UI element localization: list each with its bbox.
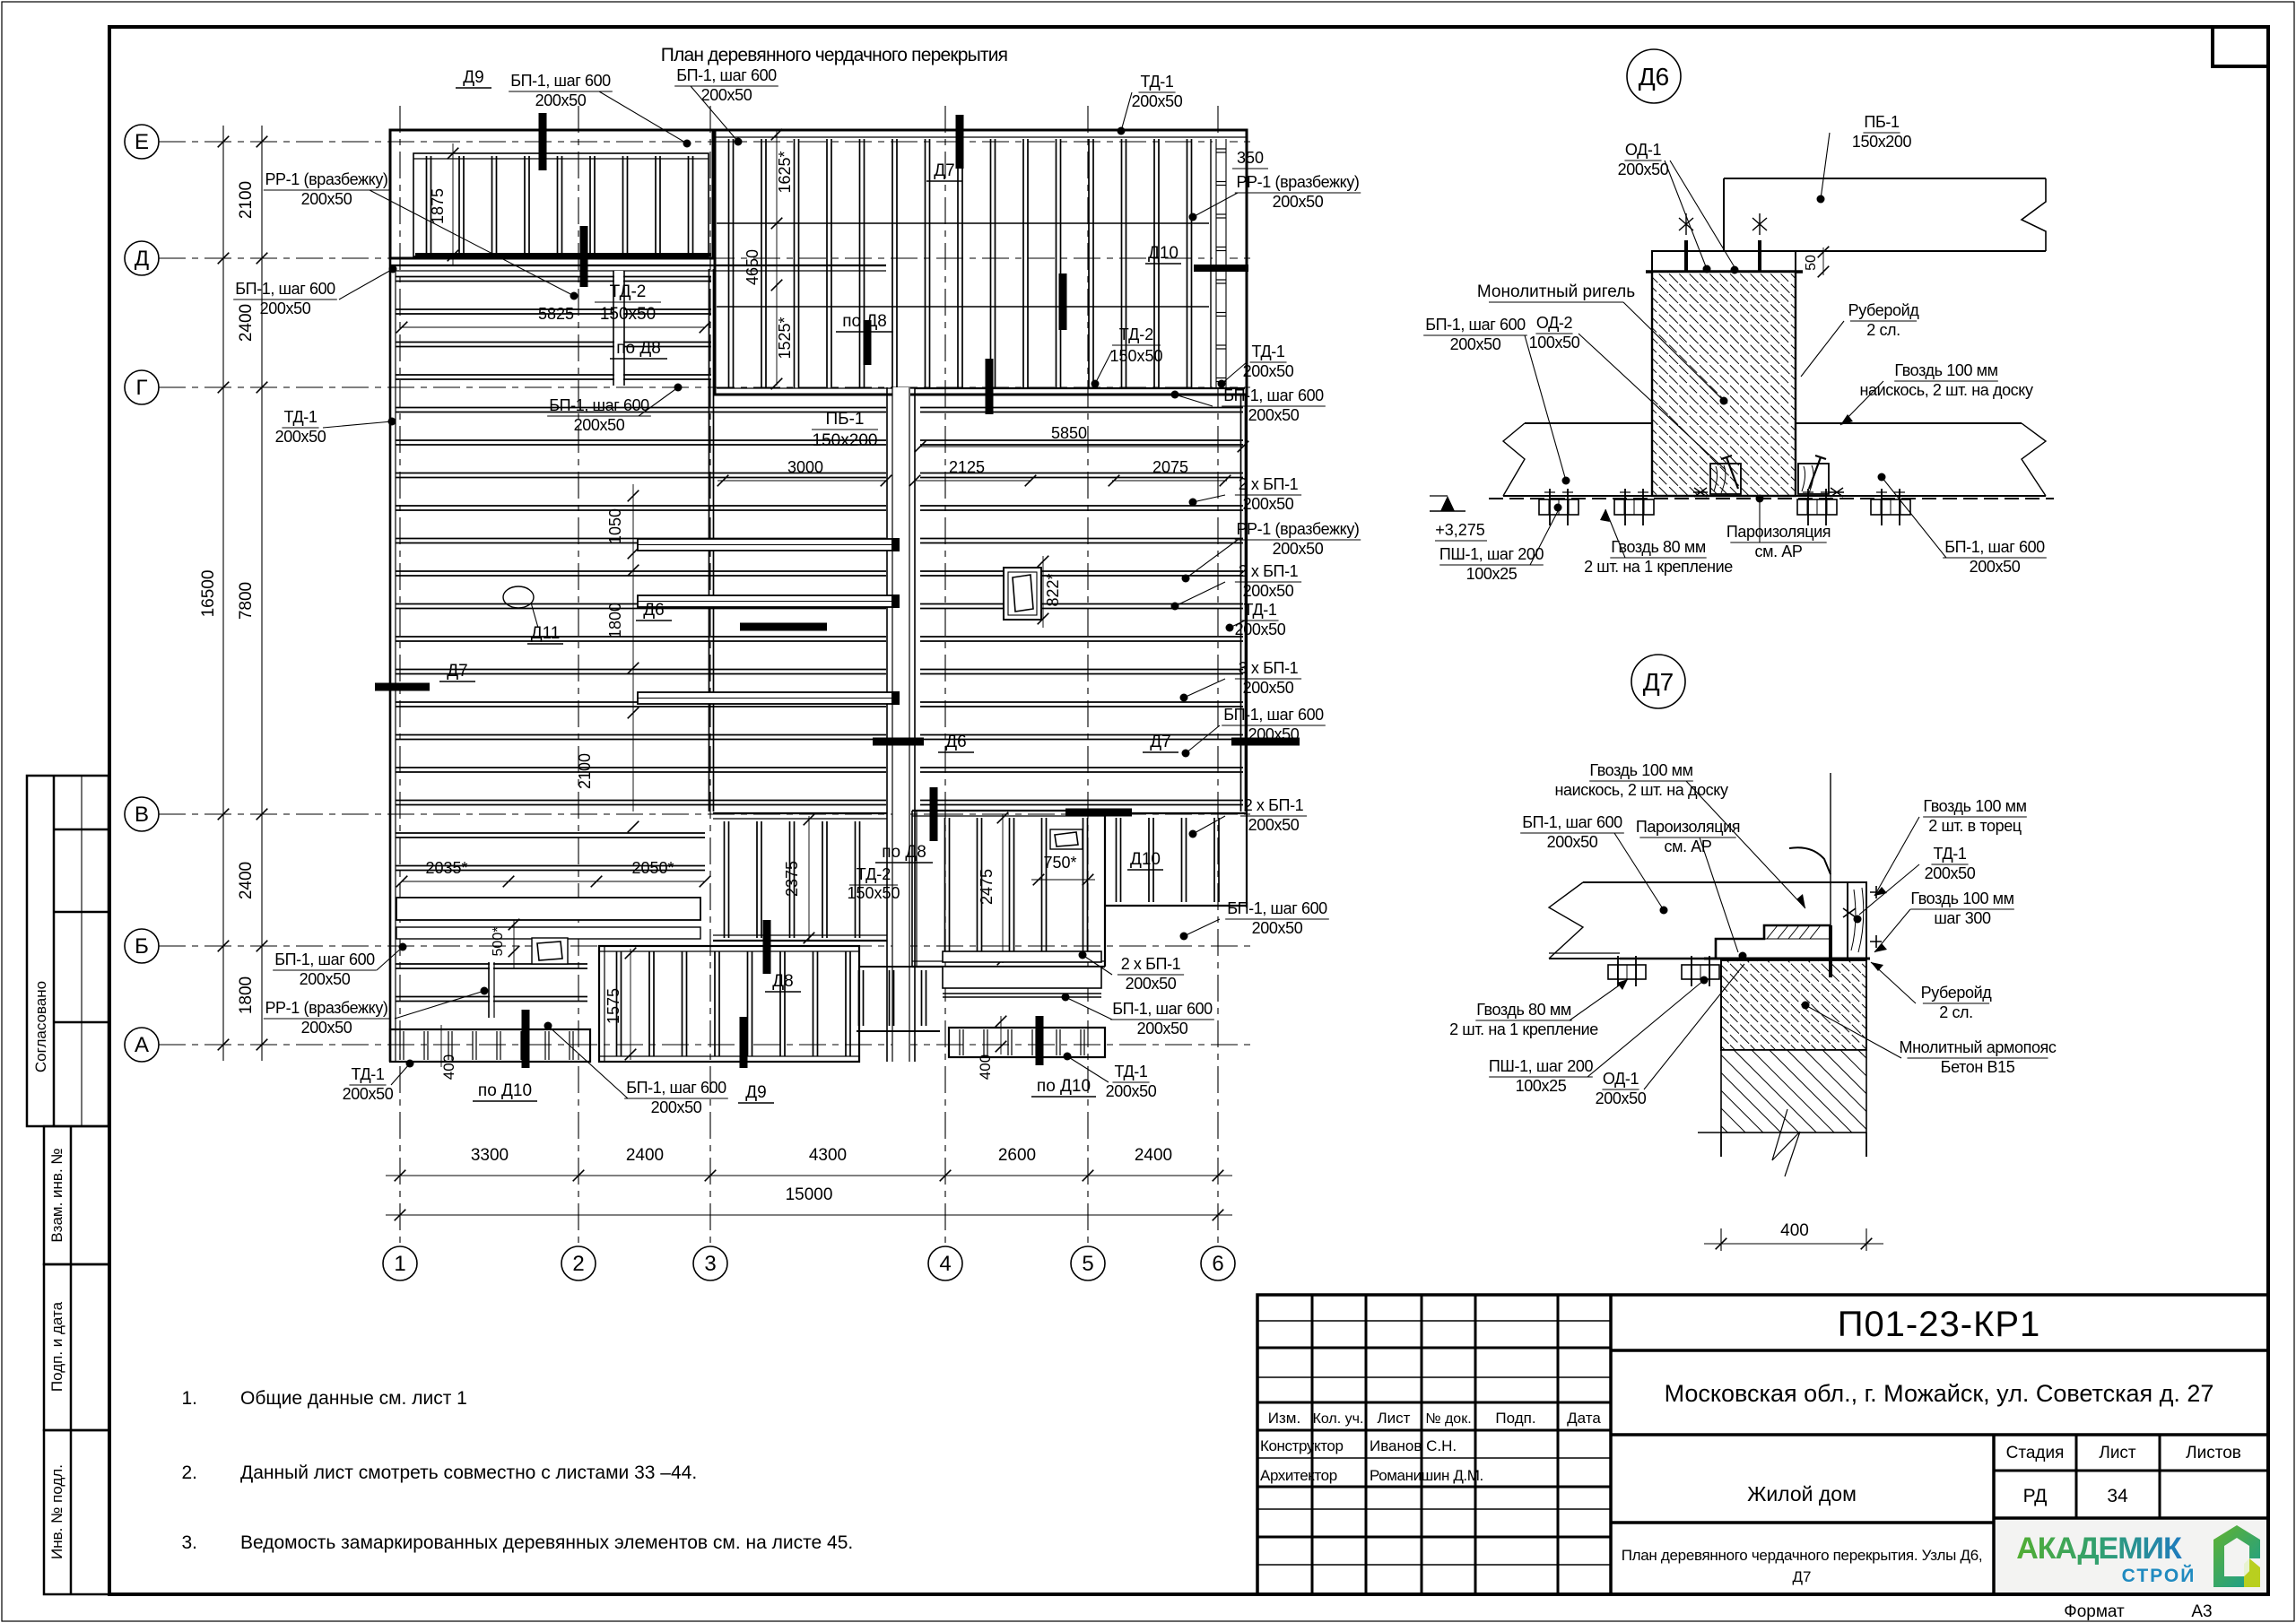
svg-text:200x50: 200x50 <box>1925 864 1976 882</box>
svg-text:Руберойд: Руберойд <box>1848 301 1920 319</box>
svg-text:Лист: Лист <box>2099 1444 2136 1462</box>
svg-text:200x50: 200x50 <box>535 91 587 109</box>
svg-text:200x50: 200x50 <box>1137 1020 1188 1037</box>
Д6 monolithic pier hatched <box>1652 272 1796 496</box>
svg-text:БП-1, шаг 600: БП-1, шаг 600 <box>510 72 611 90</box>
svg-text:2.: 2. <box>181 1462 197 1483</box>
dim 822* <box>1042 556 1044 628</box>
dim 5850 <box>920 446 1243 447</box>
left dim chain segments <box>222 126 224 1061</box>
svg-text:1: 1 <box>394 1252 405 1276</box>
svg-text:РР-1 (вразбежку): РР-1 (вразбежку) <box>265 999 387 1017</box>
Д7 dim 400 <box>1720 1050 1722 1251</box>
svg-text:34: 34 <box>2107 1486 2128 1506</box>
svg-text:Романишин Д.М.: Романишин Д.М. <box>1370 1467 1483 1484</box>
sub-block right of 1575 <box>859 966 940 968</box>
svg-text:822*: 822* <box>1044 573 1062 606</box>
svg-text:200x50: 200x50 <box>1596 1089 1647 1107</box>
svg-text:200x50: 200x50 <box>1243 495 1294 513</box>
axis bubbles numbers <box>383 1246 417 1280</box>
svg-text:БП-1, шаг 600: БП-1, шаг 600 <box>676 66 777 84</box>
svg-text:4300: 4300 <box>809 1146 847 1165</box>
Д7 armo-belt hatched <box>1721 960 1866 1050</box>
svg-text:А: А <box>135 1033 149 1057</box>
stage/sheet cells <box>1994 1470 2268 1472</box>
svg-text:200x50: 200x50 <box>1106 1082 1157 1100</box>
svg-text:ОД-1: ОД-1 <box>1603 1070 1639 1088</box>
svg-text:+3,275: +3,275 <box>1435 521 1485 539</box>
svg-text:Кол. уч.: Кол. уч. <box>1313 1411 1364 1427</box>
svg-text:Е: Е <box>135 130 149 154</box>
svg-text:Д11: Д11 <box>531 624 561 643</box>
svg-text:Подп.: Подп. <box>1495 1410 1535 1427</box>
svg-text:2 шт. на 1 крепление: 2 шт. на 1 крепление <box>1449 1020 1598 1038</box>
svg-text:по Д8: по Д8 <box>616 339 661 358</box>
svg-text:Ведомость замаркированных дере: Ведомость замаркированных деревянных эле… <box>240 1532 853 1553</box>
svg-text:2400: 2400 <box>1135 1146 1172 1165</box>
svg-text:500*: 500* <box>491 927 506 957</box>
svg-text:№ док.: № док. <box>1425 1411 1471 1427</box>
svg-text:Взам. инв. №: Взам. инв. № <box>48 1148 65 1242</box>
svg-text:Конструктор: Конструктор <box>1260 1437 1344 1454</box>
svg-text:16500: 16500 <box>199 570 218 618</box>
svg-text:2035*: 2035* <box>425 859 467 877</box>
svg-text:БП-1, шаг 600: БП-1, шаг 600 <box>1112 1000 1213 1018</box>
svg-text:200x50: 200x50 <box>343 1085 394 1103</box>
svg-text:200x50: 200x50 <box>1252 919 1303 937</box>
section bar Д7 label row right <box>1231 738 1300 746</box>
dims 1050 1800 2100 rotated <box>632 484 634 811</box>
svg-text:3 х БП-1: 3 х БП-1 <box>1239 659 1299 677</box>
dim 1875 vertical <box>452 143 454 265</box>
svg-text:7800: 7800 <box>237 582 256 620</box>
svg-text:200x50: 200x50 <box>1248 816 1300 834</box>
svg-text:АКАДЕМИК: АКАДЕМИК <box>2016 1532 2182 1566</box>
svg-text:5: 5 <box>1082 1252 1093 1276</box>
svg-text:Д7: Д7 <box>1793 1568 1812 1585</box>
svg-text:6: 6 <box>1212 1252 1223 1276</box>
svg-text:ТД-1: ТД-1 <box>1244 601 1277 619</box>
svg-text:2400: 2400 <box>626 1146 664 1165</box>
sheet name cell <box>1611 1521 1994 1524</box>
section bar Д6 mid (horizontal) <box>740 623 827 631</box>
svg-text:ПШ-1, шаг 200: ПШ-1, шаг 200 <box>1489 1057 1594 1075</box>
centre-bottom block 1575 <box>599 946 859 1062</box>
svg-text:Гвоздь 80 мм: Гвоздь 80 мм <box>1476 1001 1571 1019</box>
svg-text:по Д10: по Д10 <box>478 1081 532 1100</box>
svg-text:Архитектор: Архитектор <box>1260 1467 1337 1484</box>
address cell <box>1611 1433 2268 1436</box>
logo cell <box>1996 1520 2266 1593</box>
label Д11 <box>503 586 534 608</box>
svg-text:2 шт. на 1 крепление: 2 шт. на 1 крепление <box>1584 558 1733 576</box>
svg-text:5850: 5850 <box>1051 424 1087 442</box>
svg-text:РР-1 (вразбежку): РР-1 (вразбежку) <box>1236 520 1359 538</box>
svg-text:4: 4 <box>939 1252 951 1276</box>
svg-text:ПШ-1, шаг 200: ПШ-1, шаг 200 <box>1439 545 1544 563</box>
svg-text:100x50: 100x50 <box>1529 334 1580 352</box>
band РР-1 long <box>396 898 700 920</box>
svg-text:200x50: 200x50 <box>1235 621 1286 638</box>
svg-text:200x50: 200x50 <box>1243 679 1294 697</box>
svg-text:П01-23-КР1: П01-23-КР1 <box>1838 1305 2041 1344</box>
svg-text:В: В <box>135 803 149 827</box>
Д7 vertical line above <box>1830 773 1831 925</box>
dim 4650 / 1625* / 1525* <box>776 131 778 386</box>
section bar по Д10 left <box>522 1010 530 1068</box>
svg-text:по Д8: по Д8 <box>842 312 887 331</box>
svg-text:3300: 3300 <box>471 1146 509 1165</box>
svg-text:Д10: Д10 <box>1130 850 1161 869</box>
svg-text:200x50: 200x50 <box>1450 335 1501 353</box>
svg-text:БП-1, шаг 600: БП-1, шаг 600 <box>1944 538 2045 556</box>
svg-text:ОД-1: ОД-1 <box>1625 141 1662 159</box>
svg-text:Д9: Д9 <box>463 68 483 87</box>
svg-text:РР-1 (вразбежку): РР-1 (вразбежку) <box>265 170 387 188</box>
dim 2375 <box>808 816 810 942</box>
svg-text:БП-1, шаг 600: БП-1, шаг 600 <box>1425 316 1526 334</box>
svg-text:200x50: 200x50 <box>301 190 352 208</box>
svg-text:БП-1, шаг 600: БП-1, шаг 600 <box>1522 813 1622 831</box>
Д6 beam ПБ-1 <box>1724 178 2046 179</box>
svg-text:Изм.: Изм. <box>1268 1410 1300 1427</box>
svg-text:200x50: 200x50 <box>701 86 752 104</box>
block right 350 step <box>1105 812 1247 814</box>
svg-text:2125: 2125 <box>949 458 985 476</box>
svg-text:Бетон В15: Бетон В15 <box>1941 1058 2015 1076</box>
svg-text:ОД-2: ОД-2 <box>1536 314 1573 332</box>
svg-text:2: 2 <box>572 1252 584 1276</box>
svg-text:ТД-1: ТД-1 <box>1934 845 1967 863</box>
svg-text:Листов: Листов <box>2186 1444 2241 1462</box>
Д7 vapour barrier step <box>1620 925 1831 959</box>
svg-text:Согласовано: Согласовано <box>32 981 49 1072</box>
Д6 level mark +3,275 <box>1440 496 1455 511</box>
svg-text:ТД-1: ТД-1 <box>1252 343 1285 360</box>
svg-text:150x50: 150x50 <box>600 305 656 324</box>
svg-text:100x25: 100x25 <box>1466 565 1518 583</box>
svg-text:Д7: Д7 <box>447 662 467 681</box>
Д7 fastener plates <box>1608 965 1646 979</box>
svg-text:2400: 2400 <box>237 304 256 342</box>
svg-text:Д8: Д8 <box>772 972 793 991</box>
svg-text:2 сл.: 2 сл. <box>1939 1003 1973 1021</box>
svg-text:по Д8: по Д8 <box>882 843 926 862</box>
stair shaft <box>892 387 910 1062</box>
svg-text:Д: Д <box>135 247 149 271</box>
svg-text:200x50: 200x50 <box>1132 92 1183 110</box>
opening parallelogram left <box>532 938 568 964</box>
svg-text:шаг 300: шаг 300 <box>1934 909 1991 927</box>
svg-text:БП-1, шаг 600: БП-1, шаг 600 <box>1227 899 1327 917</box>
Д7 nail into belt <box>1829 925 1832 977</box>
svg-text:200x50: 200x50 <box>301 1019 352 1037</box>
svg-text:РР-1 (вразбежку): РР-1 (вразбежку) <box>1236 173 1359 191</box>
svg-text:Гвоздь 100 мм: Гвоздь 100 мм <box>1923 797 2026 815</box>
Д6 right joist <box>1796 422 2022 424</box>
svg-text:2100: 2100 <box>576 753 594 789</box>
svg-text:2 х БП-1: 2 х БП-1 <box>1121 955 1181 973</box>
dim 2475 <box>1002 814 1004 963</box>
svg-text:2375: 2375 <box>783 861 801 897</box>
svg-text:200x50: 200x50 <box>574 416 625 434</box>
section bar far right top <box>1059 273 1067 330</box>
Д6 board ОД-1 <box>1652 251 1796 272</box>
svg-text:200x50: 200x50 <box>1248 406 1300 424</box>
object name cell <box>1992 1435 1996 1594</box>
svg-text:Иванов С.Н.: Иванов С.Н. <box>1370 1437 1457 1454</box>
joist block top-centre (Е-Г) <box>715 130 1247 395</box>
svg-text:200x50: 200x50 <box>651 1098 702 1116</box>
bottom strip left <box>390 1029 590 1062</box>
stamp Взам. инв. № <box>44 1126 109 1264</box>
detail Д7 bubble <box>1631 655 1685 708</box>
Д6 nails on blocks <box>1721 456 1738 489</box>
svg-text:200x50: 200x50 <box>1970 558 2021 576</box>
svg-text:200x50: 200x50 <box>1618 161 1669 178</box>
svg-text:ТД-1: ТД-1 <box>352 1065 385 1083</box>
svg-text:150x200: 150x200 <box>813 431 878 450</box>
svg-text:50: 50 <box>1804 255 1819 271</box>
svg-text:БП-1, шаг 600: БП-1, шаг 600 <box>235 280 335 298</box>
svg-text:А3: А3 <box>2191 1602 2212 1621</box>
svg-text:100x25: 100x25 <box>1516 1077 1567 1095</box>
svg-text:Д7: Д7 <box>1643 668 1674 696</box>
svg-text:по Д10: по Д10 <box>1037 1077 1091 1096</box>
Д7 joist <box>1583 881 1848 883</box>
svg-text:Г: Г <box>136 376 148 400</box>
section bar по Д8 upper-left <box>580 226 588 287</box>
logo house icon <box>2213 1525 2260 1587</box>
axis bubbles letters <box>125 125 159 159</box>
svg-text:3: 3 <box>704 1252 716 1276</box>
svg-text:Гвоздь 100 мм: Гвоздь 100 мм <box>1894 361 1997 379</box>
section bar Д7 top <box>956 115 964 169</box>
svg-text:Мнолитный армопояс: Мнолитный армопояс <box>1900 1038 2057 1056</box>
svg-text:Жилой дом: Жилой дом <box>1747 1482 1857 1506</box>
svg-text:200x50: 200x50 <box>1243 582 1294 600</box>
svg-text:5825: 5825 <box>538 305 574 323</box>
svg-text:2075: 2075 <box>1152 458 1188 476</box>
svg-text:Стадия: Стадия <box>2006 1444 2065 1462</box>
svg-text:Дата: Дата <box>1567 1410 1601 1427</box>
section bar Д6 label row <box>873 738 924 746</box>
doc designation cell <box>1611 1349 2268 1352</box>
svg-text:200x50: 200x50 <box>1547 833 1598 851</box>
section bar Д7 left <box>375 683 430 691</box>
svg-text:Лист: Лист <box>1378 1410 1411 1427</box>
svg-text:4650: 4650 <box>744 249 761 285</box>
svg-text:Общие данные см. лист 1: Общие данные см. лист 1 <box>240 1388 467 1409</box>
svg-text:Гвоздь 100 мм: Гвоздь 100 мм <box>1589 761 1692 779</box>
joist block top-left (Е-Д) <box>390 130 713 258</box>
Д7 nail marks right <box>1870 886 1882 898</box>
dim 500* <box>513 920 515 968</box>
svg-text:Гвоздь 80 мм: Гвоздь 80 мм <box>1611 538 1706 556</box>
dim 400 right <box>1000 1016 1002 1055</box>
block 2375 vertical joists <box>713 812 887 814</box>
Д7 ТД-1 board <box>1848 882 1866 959</box>
svg-text:План деревянного чердачного пе: План деревянного чердачного перекрытия <box>661 45 1008 65</box>
dims 2035* 2050* <box>402 881 705 882</box>
svg-text:Формат: Формат <box>2064 1602 2125 1621</box>
svg-text:150x50: 150x50 <box>1109 347 1162 365</box>
dim 5825 <box>402 326 705 328</box>
svg-text:2100: 2100 <box>237 181 256 219</box>
svg-text:400: 400 <box>440 1055 457 1080</box>
svg-text:ТД-1: ТД-1 <box>1141 73 1174 91</box>
svg-text:2 шт. в торец: 2 шт. в торец <box>1928 817 2022 835</box>
svg-text:Пароизоляция: Пароизоляция <box>1636 818 1740 836</box>
svg-text:1800: 1800 <box>606 603 624 638</box>
copy-number box top right <box>2213 27 2268 66</box>
Д7 wall below hatched <box>1721 1050 1866 1133</box>
svg-text:см. АР: см. АР <box>1755 542 1803 560</box>
svg-text:наискось, 2 шт. на доску: наискось, 2 шт. на доску <box>1859 381 2033 399</box>
axis grid lines horizontal <box>159 141 1251 143</box>
divider ТД-2 strip <box>614 271 623 386</box>
svg-text:1525*: 1525* <box>776 317 794 359</box>
по Д8 bottom label/bar <box>930 787 938 841</box>
section bar Д9 top <box>539 113 547 170</box>
title block <box>1257 1295 2268 1594</box>
svg-text:200x50: 200x50 <box>260 299 311 317</box>
svg-text:1625*: 1625* <box>776 151 794 193</box>
stamp table Согласовано <box>27 776 109 1126</box>
section bar ТД-2 right <box>986 359 994 414</box>
detail Д6 bubble <box>1627 49 1681 103</box>
svg-text:200x50: 200x50 <box>275 428 326 446</box>
dim 1575 <box>630 949 631 1060</box>
svg-text:Монолитный ригель: Монолитный ригель <box>1477 282 1635 301</box>
block 2475 vertical joists <box>912 810 1105 811</box>
svg-text:2 сл.: 2 сл. <box>1866 321 1900 339</box>
svg-text:БП-1, шаг 600: БП-1, шаг 600 <box>549 396 649 414</box>
doubled beams 2xБП-1 crossing <box>638 539 898 551</box>
svg-text:3000: 3000 <box>787 458 823 476</box>
svg-text:2 х БП-1: 2 х БП-1 <box>1244 796 1304 814</box>
bar Д10 top right <box>1065 809 1132 817</box>
joist field left (Д-В) horizontal joists <box>390 265 886 266</box>
joist field right (Г-В) <box>915 387 1245 389</box>
Д7 floor boards line <box>1549 952 1620 954</box>
svg-text:ПБ-1: ПБ-1 <box>825 410 864 429</box>
svg-text:Инв. № подл.: Инв. № подл. <box>48 1464 65 1559</box>
section bar по Д10 right <box>1036 1016 1044 1065</box>
svg-text:150x200: 150x200 <box>1852 133 1912 151</box>
svg-text:2600: 2600 <box>998 1146 1036 1165</box>
svg-text:ТД-2: ТД-2 <box>1119 325 1154 343</box>
svg-text:3.: 3. <box>181 1532 197 1553</box>
svg-text:ТД-1: ТД-1 <box>284 408 317 426</box>
svg-text:150x50: 150x50 <box>847 884 900 902</box>
Д6 dim 50 <box>1822 247 1824 275</box>
svg-text:Руберойд: Руберойд <box>1921 984 1993 1002</box>
svg-text:Данный лист смотреть совместно: Данный лист смотреть совместно с листами… <box>240 1462 697 1483</box>
stamp Инв. № подл. <box>44 1430 109 1594</box>
svg-text:Д6: Д6 <box>643 601 664 620</box>
Д7 hatched wedge руберойд <box>1764 925 1831 939</box>
section bar Д8 <box>763 920 771 974</box>
svg-text:1800: 1800 <box>237 976 256 1014</box>
2xБП-1 bands right bottom <box>943 951 1101 962</box>
svg-text:БП-1, шаг 600: БП-1, шаг 600 <box>1223 706 1324 724</box>
window opening <box>1004 568 1041 620</box>
svg-text:Д7: Д7 <box>934 161 954 180</box>
svg-text:200x50: 200x50 <box>1243 362 1294 380</box>
opening symbol in 2475 block <box>1050 829 1083 849</box>
svg-text:1875: 1875 <box>429 188 447 224</box>
svg-text:Д10: Д10 <box>1148 244 1178 263</box>
svg-text:Гвоздь 100 мм: Гвоздь 100 мм <box>1910 890 2013 907</box>
dim 400 left <box>440 1025 442 1067</box>
svg-text:ТД-1: ТД-1 <box>1115 1063 1148 1081</box>
svg-text:Д9: Д9 <box>745 1083 766 1102</box>
svg-text:Д7: Д7 <box>1150 733 1170 751</box>
svg-text:200x50: 200x50 <box>1248 725 1300 743</box>
svg-text:200x50: 200x50 <box>300 970 351 988</box>
svg-text:750*: 750* <box>1043 854 1076 872</box>
svg-text:200x50: 200x50 <box>1273 540 1324 558</box>
lower-left rows <box>490 962 493 1018</box>
Д6 fastener plates ПШ-1 <box>1539 499 1578 515</box>
svg-text:350: 350 <box>1237 149 1264 167</box>
svg-text:1.: 1. <box>181 1388 197 1409</box>
svg-text:ТД-2: ТД-2 <box>857 865 891 883</box>
svg-text:Московская обл., г. Можайск, у: Московская обл., г. Можайск, ул. Советск… <box>1665 1380 2214 1407</box>
svg-text:2050*: 2050* <box>631 859 674 877</box>
Д7 wall break <box>1721 1133 1866 1157</box>
bottom dim chains <box>386 1175 1232 1176</box>
svg-text:Пароизоляция: Пароизоляция <box>1726 523 1831 541</box>
axis grid lines vertical <box>399 106 401 1243</box>
svg-text:15000: 15000 <box>786 1185 833 1204</box>
svg-text:2400: 2400 <box>237 862 256 899</box>
svg-text:200x50: 200x50 <box>1273 193 1324 211</box>
svg-text:ТД-2: ТД-2 <box>610 282 647 301</box>
svg-text:БП-1, шаг 600: БП-1, шаг 600 <box>1223 386 1324 404</box>
svg-text:2 х БП-1: 2 х БП-1 <box>1239 475 1299 493</box>
Д6 top nails into pier <box>1684 240 1688 271</box>
svg-text:Б: Б <box>135 934 149 959</box>
Д6 wood blocks ОД-2 <box>1710 464 1741 494</box>
svg-text:2475: 2475 <box>978 869 996 905</box>
Д6 left joist <box>1525 422 1652 424</box>
svg-text:200x50: 200x50 <box>1126 975 1177 993</box>
Д6 vapour barrier dashed <box>1489 498 2054 499</box>
svg-text:наискось, 2 шт. на доску: наискось, 2 шт. на доску <box>1554 781 1728 799</box>
svg-text:ПБ-1: ПБ-1 <box>1864 113 1900 131</box>
dims 3000 2125 2075 <box>717 480 886 482</box>
ladder column right <box>1213 139 1230 388</box>
svg-text:Д6: Д6 <box>1639 63 1670 91</box>
bottom strip right <box>949 1028 1105 1057</box>
svg-text:1575: 1575 <box>604 988 622 1024</box>
svg-text:План деревянного чердачного пе: План деревянного чердачного перекрытия. … <box>1622 1547 1983 1564</box>
joint rows in top-centre block <box>717 222 1209 224</box>
svg-text:Д6: Д6 <box>945 733 966 751</box>
svg-text:СТРОЙ: СТРОЙ <box>2122 1565 2196 1586</box>
svg-text:2 х БП-1: 2 х БП-1 <box>1239 562 1299 580</box>
section bar по Д8 right of ТД-2 <box>864 320 872 365</box>
svg-text:БП-1, шаг 600: БП-1, шаг 600 <box>626 1079 726 1097</box>
section bar Д9 bottom <box>740 1017 748 1068</box>
Д6 nail X marks at pier sides <box>1693 488 1708 497</box>
svg-text:400: 400 <box>977 1055 994 1080</box>
svg-text:БП-1, шаг 600: БП-1, шаг 600 <box>274 950 375 968</box>
svg-text:400: 400 <box>1780 1221 1809 1240</box>
svg-text:РД: РД <box>2023 1486 2048 1506</box>
